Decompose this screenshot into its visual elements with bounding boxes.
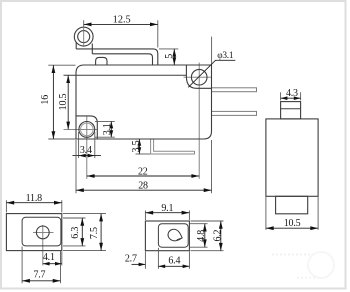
switch body outline bbox=[76, 65, 212, 139]
hole centerline vertical (bottom-left hole, extends to 22 dim) bbox=[86, 116, 88, 179]
plunger button bbox=[96, 57, 107, 65]
top-right hole outer circle bbox=[191, 69, 207, 85]
hole centerline horizontal (bottom-left hole) bbox=[64, 128, 98, 130]
dim 4.8 extension lines bbox=[190, 223, 208, 225]
terminal plate outer outline bbox=[6, 214, 61, 251]
svg-text:3.5: 3.5 bbox=[131, 140, 142, 152]
arrow 4.3 left bbox=[281, 96, 288, 100]
dim 7.5 line bbox=[100, 214, 102, 251]
arrow 4.1 right bbox=[55, 262, 62, 266]
dim 6.2 extension lines bbox=[191, 220, 224, 222]
dim 12.5 line bbox=[84, 23, 158, 25]
arrow 7.7 right bbox=[53, 279, 61, 283]
svg-text:7.5: 7.5 bbox=[89, 227, 100, 239]
dim 11.8 extension lines bbox=[5, 200, 7, 212]
svg-text:4.3: 4.3 bbox=[286, 88, 298, 99]
arrow 12.5 left bbox=[84, 23, 92, 27]
arrow 7.5 bottom bbox=[99, 243, 103, 251]
lever bracket left edge bbox=[75, 42, 77, 49]
svg-text:2.7: 2.7 bbox=[125, 254, 137, 265]
side view main block bbox=[266, 119, 318, 196]
arrow 2.7 right-pointing at 145.4 bbox=[139, 263, 146, 267]
dim 12.5 extension lines bbox=[83, 20, 85, 27]
arrow 10.5 left bbox=[266, 226, 274, 230]
arrow 7.5 top bbox=[99, 214, 103, 222]
dim 2.7 line bbox=[132, 263, 146, 265]
top-right mounting boss bbox=[186, 65, 211, 88]
arrow 6.4 right bbox=[183, 265, 190, 269]
body cover seam line bbox=[64, 74, 187, 76]
bottom-left mounting boss bbox=[76, 116, 97, 139]
arrow 22 right bbox=[191, 174, 199, 178]
svg-text:6.4: 6.4 bbox=[168, 255, 180, 266]
arrow 3.5 bottom bbox=[138, 147, 142, 154]
dim 7.7 extension lines bbox=[21, 247, 23, 284]
dim 10.5 extension lines bbox=[265, 197, 267, 230]
svg-text:16: 16 bbox=[40, 95, 51, 105]
arrow 6.3 bottom bbox=[80, 238, 84, 246]
svg-text:7.7: 7.7 bbox=[33, 270, 45, 281]
hole centerline vertical (top-right hole, extends to 22 dim) bbox=[198, 63, 200, 179]
dim 10.5 line bbox=[67, 75, 69, 129]
leader line for hole dia 3.1 bbox=[188, 60, 235, 87]
side view bottom terminal block bbox=[276, 196, 308, 214]
arrow 28 right bbox=[204, 188, 212, 192]
arrow 3.1 bottom bbox=[109, 130, 113, 137]
svg-text:6.2: 6.2 bbox=[212, 229, 223, 241]
svg-text:10.5: 10.5 bbox=[284, 218, 301, 229]
roller inner circle bbox=[78, 31, 90, 43]
arrow 4.8 bottom bbox=[203, 239, 207, 247]
dim 6.3 extension lines bbox=[63, 217, 86, 219]
svg-text:5: 5 bbox=[164, 54, 175, 59]
svg-text:9.1: 9.1 bbox=[161, 203, 173, 214]
dim 4.1 line bbox=[43, 263, 62, 265]
dim 5 extension line bbox=[159, 48, 178, 50]
arrow 9.1 left bbox=[145, 211, 153, 215]
terminal prong lower bbox=[212, 111, 257, 115]
arrow 5 top bbox=[172, 49, 176, 57]
arrow 10.5 right bbox=[310, 226, 318, 230]
svg-text:4.1: 4.1 bbox=[43, 252, 55, 263]
dim 28 line bbox=[76, 189, 212, 191]
arrow 3.5 top bbox=[138, 139, 142, 146]
arrows: main view bbox=[52, 23, 212, 193]
dim 4.3 extension lines bbox=[280, 92, 282, 100]
dim 5 line bbox=[173, 49, 175, 65]
svg-text:3.1: 3.1 bbox=[102, 123, 113, 135]
arrow 6.3 top bbox=[80, 218, 84, 226]
side view button step line bbox=[281, 108, 301, 110]
arrow 10.5 bottom bbox=[66, 122, 70, 130]
dim 10.5 line bbox=[266, 227, 318, 229]
bottom terminal hook outer bbox=[151, 139, 195, 154]
arrow 6.2 top bbox=[219, 221, 223, 229]
arrow 11.8 left bbox=[6, 201, 14, 205]
arrow 4.3 right bbox=[294, 96, 301, 100]
dim 22 line bbox=[87, 175, 199, 177]
dim 28 extension lines bbox=[75, 140, 77, 193]
arrow 3.4 right bbox=[88, 154, 95, 158]
arrow 4.1 left bbox=[43, 262, 50, 266]
roller centerline bbox=[83, 27, 85, 47]
bottom-left hole inner circle bbox=[81, 123, 94, 136]
dim 7.7 line bbox=[22, 280, 60, 282]
dim 3.1 extension lines bbox=[95, 120, 115, 122]
svg-text:11.8: 11.8 bbox=[26, 193, 43, 204]
dim 4.1 extension line bbox=[61, 252, 63, 266]
lever arm inner edge bbox=[92, 54, 152, 65]
svg-text:6.3: 6.3 bbox=[70, 227, 81, 239]
terminal plate inner contour bbox=[22, 217, 61, 246]
terminal plate 2 outer outline bbox=[145, 221, 189, 251]
arrow shared at 158.4 bbox=[158, 265, 165, 269]
arrow 9.1 right bbox=[182, 211, 190, 215]
roller outer circle bbox=[74, 27, 93, 46]
lever arm outer edge bbox=[76, 49, 158, 65]
side view button bbox=[281, 102, 301, 119]
dim 16 extension lines bbox=[48, 64, 75, 66]
svg-text:φ3.1: φ3.1 bbox=[217, 51, 234, 61]
svg-text:10.5: 10.5 bbox=[58, 93, 69, 110]
arrow 11.8 right bbox=[54, 201, 62, 205]
dim 2.7 / 6.4 extension lines bbox=[144, 252, 146, 269]
arrow 4.8 top bbox=[203, 224, 207, 232]
arrow 22 left bbox=[87, 174, 95, 178]
terminal plate hole bbox=[36, 226, 49, 239]
lever bracket right edge bbox=[91, 44, 93, 54]
arrow 12.5 right bbox=[150, 23, 158, 27]
dim 16 line bbox=[52, 65, 54, 139]
arrow 3.4 left bbox=[79, 154, 86, 158]
arrow 3.1 top bbox=[109, 121, 113, 128]
dim 11.8 line bbox=[6, 202, 61, 204]
arrow 28 left bbox=[76, 188, 84, 192]
dim 7.5 extension lines bbox=[63, 213, 106, 215]
dim 3.4 line bbox=[73, 155, 102, 157]
body right edge extended above (extension line) bbox=[211, 37, 213, 65]
terminal plate 2 inner contour bbox=[158, 224, 188, 248]
svg-text:28: 28 bbox=[138, 181, 148, 192]
terminal plate 2 oval hole bbox=[168, 229, 182, 241]
dim 4.3 line bbox=[281, 97, 301, 99]
svg-text:3.4: 3.4 bbox=[80, 145, 92, 156]
arrow 5 bottom bbox=[172, 57, 176, 65]
dim 9.1 line bbox=[145, 212, 189, 214]
dim 6.3 line bbox=[81, 218, 83, 246]
arrow 16 top bbox=[52, 65, 56, 73]
hole centerline horizontal bbox=[33, 231, 54, 233]
svg-text:4.8: 4.8 bbox=[196, 230, 207, 242]
dim 6.4 line bbox=[158, 265, 189, 267]
arrow 7.7 left bbox=[22, 279, 30, 283]
terminal prong upper bbox=[212, 88, 257, 92]
arrow 10.5 top bbox=[66, 75, 70, 83]
hole centerline vertical (extends to 4.1 dim) bbox=[42, 225, 44, 266]
dim 3.4 extension lines bbox=[78, 132, 80, 158]
bottom-left hole outer circle bbox=[79, 121, 95, 137]
dim 3.1 line bbox=[110, 121, 112, 137]
bottom terminal hook inner bbox=[154, 139, 195, 152]
dim 9.1 extension lines bbox=[144, 210, 146, 220]
hole centerline horizontal (top-right hole) bbox=[184, 76, 212, 78]
arrow 16 bottom bbox=[52, 131, 56, 139]
svg-text:12.5: 12.5 bbox=[113, 15, 131, 26]
dim 3.5 extension line bbox=[136, 153, 151, 155]
faint watermark bbox=[272, 252, 334, 278]
dim 3.5 line bbox=[138, 139, 140, 154]
arrow 6.2 bottom bbox=[219, 243, 223, 251]
dim 6.2 line bbox=[220, 221, 222, 251]
svg-text:22: 22 bbox=[138, 166, 148, 177]
dim 4.8 line bbox=[204, 224, 206, 248]
